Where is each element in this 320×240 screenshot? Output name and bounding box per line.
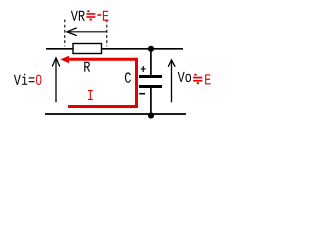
wire bottom horizontal	[45, 113, 186, 115]
symbol approx-equals red (top)	[86, 10, 95, 20]
wire capacitor top stub	[150, 49, 152, 76]
symbol approx-equals red (right)	[193, 74, 202, 84]
label R	[84, 62, 90, 72]
label VR	[71, 11, 85, 21]
label E red (right)	[205, 74, 211, 84]
wire capacitor bottom stub	[150, 88, 152, 116]
capacitor C plate bottom	[139, 85, 162, 88]
red current arrowhead	[60, 56, 69, 63]
VR measurement arrow	[67, 31, 107, 33]
node junction bottom	[148, 112, 154, 118]
wire top horizontal	[46, 48, 183, 50]
label 0 red	[36, 75, 42, 85]
dashed line right	[106, 20, 108, 47]
resistor R body	[73, 44, 102, 54]
label Vo	[178, 72, 191, 82]
node junction top	[148, 46, 154, 52]
label Vi=	[14, 74, 35, 85]
capacitor C plate top	[139, 75, 162, 78]
label I red	[88, 90, 93, 100]
label -E red (top)	[97, 11, 108, 21]
label C	[125, 72, 131, 82]
Vo voltage arrow (up)	[171, 61, 173, 102]
Vi voltage arrow (up)	[55, 58, 57, 102]
capacitor minus sign	[139, 93, 145, 95]
dashed line left	[64, 20, 66, 47]
capacitor plus sign	[141, 66, 146, 72]
wire red current loop	[66, 59, 137, 106]
